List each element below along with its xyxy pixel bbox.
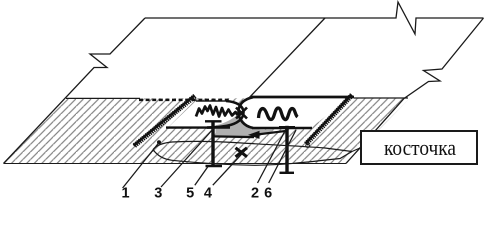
svg-text:косточка: косточка xyxy=(384,135,456,160)
fabric cross-section band (hatched strip) xyxy=(4,98,411,164)
left zigzag stitch (wavy) xyxy=(196,106,238,117)
left overcast stitched edge (zigzag band) xyxy=(134,96,195,146)
press-direction arrow xyxy=(258,131,287,135)
kostochka leader xyxy=(352,148,361,152)
svg-text:3: 3 xyxy=(154,185,162,200)
overcast end dot xyxy=(306,144,310,148)
junction X mark xyxy=(236,108,247,119)
leader 1 end dot xyxy=(157,140,161,144)
topstitch dashed line xyxy=(139,99,231,102)
svg-text:6: 6 xyxy=(264,185,272,200)
leader line 5 xyxy=(195,167,208,186)
svg-text:4: 4 xyxy=(204,185,212,200)
band bottom edge xyxy=(4,163,347,165)
right overcast stitched edge (zigzag band) xyxy=(306,95,352,144)
stitch bar left xyxy=(205,121,222,168)
band top edge xyxy=(66,97,140,99)
left fold interior (white) xyxy=(168,101,244,128)
bone casing lens top curve xyxy=(153,141,352,151)
leader line 3 xyxy=(161,128,214,187)
seam line on top surface xyxy=(248,18,326,100)
gray shelf line xyxy=(214,135,254,138)
right fold top edge thin continuation xyxy=(354,97,408,99)
callout numbers xyxy=(122,185,273,201)
svg-text:1: 1 xyxy=(122,185,130,200)
right fold interior (white) xyxy=(239,96,353,128)
bone cross-section X mark xyxy=(236,148,248,157)
right fold left rounded end (arc) xyxy=(239,97,254,128)
kostochka label box xyxy=(361,131,477,164)
right fold top edge (thick) xyxy=(251,96,354,99)
right fold bottom edge xyxy=(252,127,312,130)
leader line 1 xyxy=(123,143,159,189)
svg-text:5: 5 xyxy=(186,185,194,200)
pressed seam allowance (gray shading) xyxy=(216,115,273,138)
top surface top edge (with break) xyxy=(145,2,484,34)
top surface left edge (with break) xyxy=(4,18,146,164)
svg-text:2: 2 xyxy=(251,185,259,200)
leader line 2 xyxy=(258,129,287,183)
right zigzag stitch (wavy) xyxy=(259,108,298,120)
left fold bottom edge xyxy=(166,126,230,128)
bone casing lens bottom curve xyxy=(153,150,352,166)
left fold top edge xyxy=(196,100,226,102)
top surface right edge (with break) xyxy=(346,18,484,164)
left fold rounded end (arc) xyxy=(207,101,244,128)
leader line 4 xyxy=(213,151,245,185)
leader line 6 xyxy=(269,130,296,183)
stitch bar right xyxy=(279,126,295,174)
